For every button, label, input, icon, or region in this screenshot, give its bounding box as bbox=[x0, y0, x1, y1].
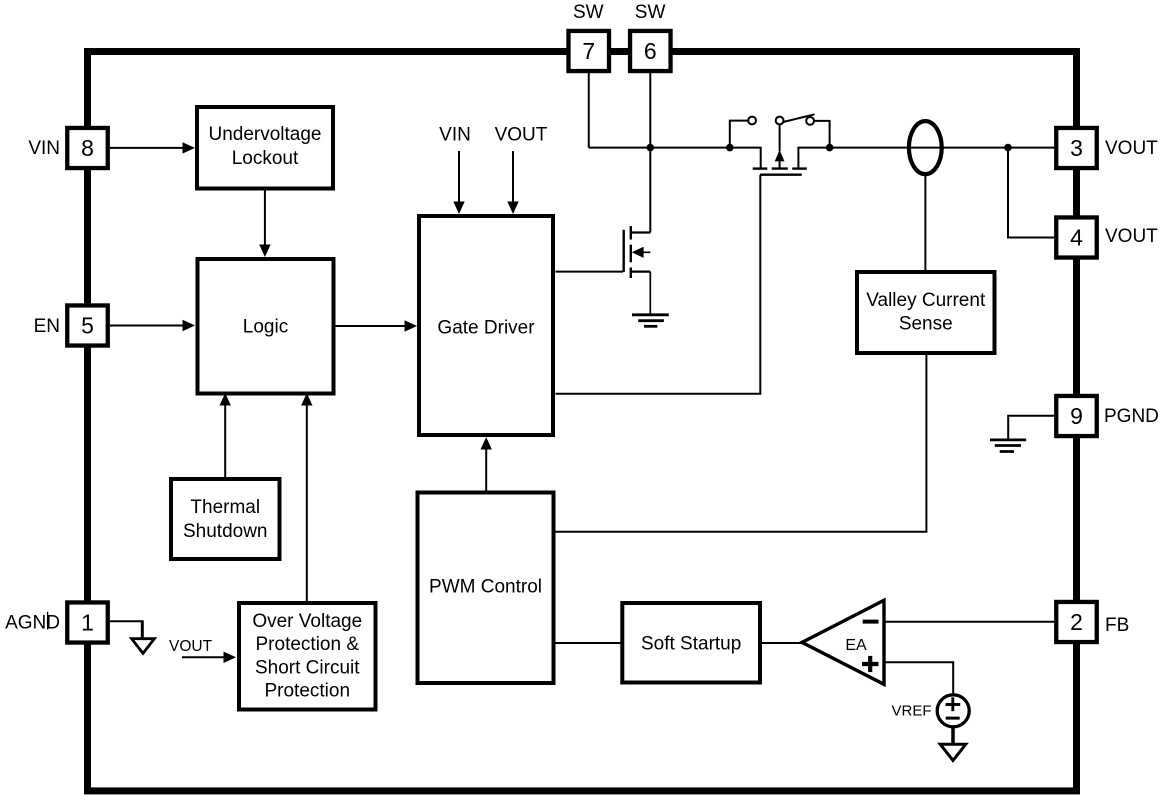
svg-text:Thermal: Thermal bbox=[190, 497, 260, 518]
svg-text:4: 4 bbox=[1070, 225, 1083, 251]
svg-text:VIN: VIN bbox=[28, 138, 60, 159]
svg-text:Gate Driver: Gate Driver bbox=[437, 318, 535, 339]
svg-text:EA: EA bbox=[845, 637, 867, 654]
svg-text:VIN: VIN bbox=[439, 124, 471, 145]
svg-text:VOUT: VOUT bbox=[169, 638, 213, 655]
svg-text:1: 1 bbox=[81, 610, 94, 636]
svg-text:Undervoltage: Undervoltage bbox=[208, 124, 321, 145]
svg-text:3: 3 bbox=[1070, 135, 1083, 161]
svg-text:Soft Startup: Soft Startup bbox=[641, 634, 741, 655]
svg-text:Shutdown: Shutdown bbox=[183, 521, 268, 542]
svg-text:Sense: Sense bbox=[899, 314, 953, 335]
svg-text:2: 2 bbox=[1070, 609, 1083, 635]
svg-text:Protection: Protection bbox=[264, 681, 350, 702]
svg-text:Protection &: Protection & bbox=[256, 634, 360, 655]
svg-text:6: 6 bbox=[644, 38, 657, 64]
svg-text:Over Voltage: Over Voltage bbox=[252, 611, 362, 632]
svg-text:FB: FB bbox=[1105, 615, 1129, 636]
svg-text:PGND: PGND bbox=[1104, 406, 1159, 427]
svg-text:Lockout: Lockout bbox=[232, 148, 299, 169]
svg-text:SW: SW bbox=[573, 2, 604, 23]
svg-text:7: 7 bbox=[582, 38, 595, 64]
svg-text:EN: EN bbox=[34, 316, 60, 337]
svg-text:Short Circuit: Short Circuit bbox=[255, 657, 360, 678]
svg-text:PWM Control: PWM Control bbox=[429, 577, 542, 598]
svg-text:Logic: Logic bbox=[243, 317, 288, 338]
svg-text:AGND: AGND bbox=[5, 612, 60, 633]
svg-text:VREF: VREF bbox=[892, 703, 932, 720]
svg-text:VOUT: VOUT bbox=[1105, 138, 1158, 159]
svg-text:8: 8 bbox=[81, 135, 94, 161]
svg-text:9: 9 bbox=[1070, 403, 1083, 429]
svg-text:Valley Current: Valley Current bbox=[866, 290, 986, 311]
svg-text:VOUT: VOUT bbox=[1105, 226, 1158, 247]
svg-text:5: 5 bbox=[81, 313, 94, 339]
svg-text:SW: SW bbox=[635, 2, 666, 23]
svg-text:VOUT: VOUT bbox=[495, 125, 548, 146]
